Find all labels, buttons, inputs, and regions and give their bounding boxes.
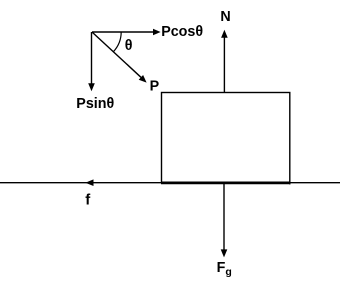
component Psin(theta) arrow [88, 32, 95, 91]
ground line [0, 182, 340, 184]
friction force f arrowhead [85, 179, 93, 186]
svg-text:f: f [85, 191, 91, 208]
weight force Fg arrow [221, 183, 228, 257]
svg-text:Psinθ: Psinθ [76, 96, 114, 112]
angle arc theta [113, 32, 121, 52]
svg-text:Fg: Fg [217, 260, 232, 278]
block [162, 93, 290, 183]
svg-text:P: P [150, 79, 160, 95]
svg-text:θ: θ [125, 38, 133, 54]
component Pcos(theta) arrow [92, 29, 161, 35]
block bottom edge thick [161, 182, 290, 185]
normal force N arrow [221, 30, 228, 93]
svg-text:N: N [220, 9, 230, 25]
applied force P arrow [92, 32, 147, 83]
block right edge overshoot [289, 182, 291, 184]
svg-text:Pcosθ: Pcosθ [161, 24, 203, 40]
